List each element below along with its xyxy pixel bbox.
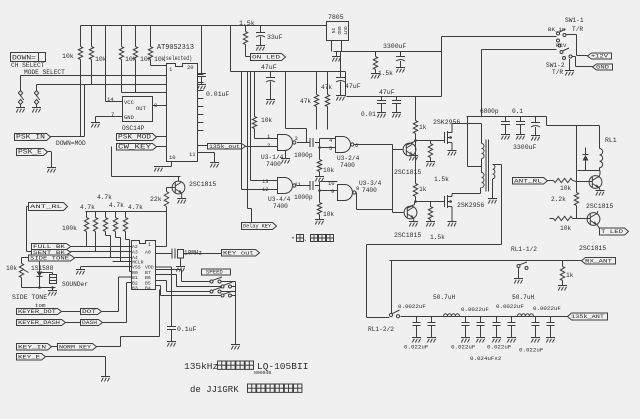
svg-text:47uF: 47uF bbox=[379, 89, 395, 96]
svg-text:VDD: VDD bbox=[145, 265, 154, 271]
svg-text:DOT: DOT bbox=[82, 309, 97, 315]
svg-text:0.01: 0.01 bbox=[361, 111, 376, 118]
svg-text:50.7uH: 50.7uH bbox=[433, 294, 456, 301]
svg-text:10MHz: 10MHz bbox=[184, 250, 202, 257]
svg-text:RL1-2/2: RL1-2/2 bbox=[368, 326, 394, 333]
svg-text:47uF: 47uF bbox=[345, 83, 361, 90]
svg-text:1.5k: 1.5k bbox=[378, 70, 393, 77]
svg-text:7: 7 bbox=[111, 111, 114, 118]
svg-text:7400: 7400 bbox=[266, 161, 281, 168]
svg-text:AT90S2313: AT90S2313 bbox=[157, 44, 194, 52]
svg-text:0.022uF: 0.022uF bbox=[487, 344, 512, 351]
svg-text:B6: B6 bbox=[145, 275, 151, 281]
svg-text:9: 9 bbox=[331, 188, 334, 195]
svg-text:T LED: T LED bbox=[601, 228, 624, 235]
svg-text:7400: 7400 bbox=[340, 162, 355, 169]
svg-text:47k: 47k bbox=[300, 98, 311, 105]
svg-text:2SK2956: 2SK2956 bbox=[457, 202, 484, 209]
svg-text:135k_ANT: 135k_ANT bbox=[571, 313, 605, 320]
svg-text:U3-3/4: U3-3/4 bbox=[359, 180, 382, 187]
svg-text:12: 12 bbox=[262, 186, 269, 193]
svg-text:PSK_E: PSK_E bbox=[18, 149, 42, 156]
svg-text:1000p: 1000p bbox=[294, 152, 313, 159]
svg-text:+12V: +12V bbox=[591, 53, 609, 60]
svg-text:4.7k: 4.7k bbox=[109, 202, 124, 209]
svg-text:3: 3 bbox=[295, 135, 298, 142]
svg-text:T/R: T/R bbox=[572, 26, 583, 33]
svg-text:0.1: 0.1 bbox=[512, 108, 523, 115]
svg-text:KEYER_DASH: KEYER_DASH bbox=[18, 320, 60, 326]
svg-text:10k: 10k bbox=[95, 56, 107, 63]
svg-text:de JJ1GRK: de JJ1GRK bbox=[190, 385, 239, 395]
svg-text:ON LED: ON LED bbox=[252, 54, 281, 61]
svg-text:II: II bbox=[297, 361, 308, 372]
svg-text:RL1: RL1 bbox=[605, 137, 617, 144]
svg-text:0.0022uF: 0.0022uF bbox=[461, 306, 489, 313]
svg-text:SW1-2: SW1-2 bbox=[546, 62, 565, 69]
svg-text:4.7k: 4.7k bbox=[97, 194, 112, 201]
svg-text:7400: 7400 bbox=[273, 203, 288, 210]
svg-text:2SK2956: 2SK2956 bbox=[433, 119, 460, 126]
svg-text:10k: 10k bbox=[125, 56, 137, 63]
svg-text:10k: 10k bbox=[140, 56, 152, 63]
svg-text:GND: GND bbox=[336, 26, 342, 35]
svg-text:135kHz: 135kHz bbox=[184, 361, 218, 372]
svg-text:0.0022uF: 0.0022uF bbox=[398, 303, 426, 310]
svg-text:(selected): (selected) bbox=[163, 55, 192, 62]
svg-text:U3-2/4: U3-2/4 bbox=[337, 155, 360, 162]
svg-text:0.022uF: 0.022uF bbox=[404, 344, 429, 351]
svg-text:47uF: 47uF bbox=[261, 64, 277, 71]
svg-text:A0: A0 bbox=[145, 250, 151, 256]
svg-text:20: 20 bbox=[187, 64, 194, 71]
svg-text:0.0022uF: 0.0022uF bbox=[533, 305, 561, 312]
svg-text:1000p: 1000p bbox=[294, 194, 313, 201]
svg-text:13: 13 bbox=[262, 178, 269, 185]
svg-text:ANT_RL: ANT_RL bbox=[30, 203, 63, 210]
svg-text:T/R: T/R bbox=[552, 69, 563, 76]
svg-text:2SC1815: 2SC1815 bbox=[189, 181, 216, 188]
svg-text:DASH: DASH bbox=[82, 320, 97, 326]
svg-text:2SC1815: 2SC1815 bbox=[394, 232, 421, 239]
svg-text:RCV: RCV bbox=[556, 42, 567, 49]
svg-text:tom: tom bbox=[35, 302, 46, 309]
svg-text:VSS: VSS bbox=[132, 265, 141, 271]
svg-text:SIDE TONE: SIDE TONE bbox=[30, 256, 69, 262]
svg-text:、: 、 bbox=[304, 236, 310, 243]
svg-text:N0004B: N0004B bbox=[254, 370, 271, 376]
svg-text:10k: 10k bbox=[6, 265, 17, 272]
svg-text:DOWN=: DOWN= bbox=[12, 55, 37, 62]
svg-text:GND: GND bbox=[124, 114, 135, 121]
svg-text:1.5k: 1.5k bbox=[430, 234, 445, 241]
svg-text:50.7uH: 50.7uH bbox=[512, 294, 535, 301]
svg-text:1.5k: 1.5k bbox=[434, 176, 449, 183]
svg-text:0.0022uF: 0.0022uF bbox=[496, 303, 524, 310]
svg-text:OSC14P: OSC14P bbox=[122, 125, 145, 132]
svg-text:CH SELECT: CH SELECT bbox=[11, 62, 45, 69]
svg-text:KEY_E: KEY_E bbox=[18, 354, 40, 360]
svg-text:SW1-1: SW1-1 bbox=[565, 17, 584, 24]
svg-text:KEY out: KEY out bbox=[223, 249, 254, 256]
svg-text:10: 10 bbox=[169, 154, 176, 161]
svg-text:A3: A3 bbox=[132, 250, 138, 256]
svg-text:11: 11 bbox=[295, 181, 302, 188]
svg-text:1k: 1k bbox=[566, 272, 574, 279]
svg-text:7400: 7400 bbox=[362, 187, 377, 194]
svg-text:10k: 10k bbox=[323, 211, 334, 218]
svg-text:10k: 10k bbox=[323, 167, 334, 174]
svg-text:VCC: VCC bbox=[124, 99, 135, 106]
svg-text:2.2k: 2.2k bbox=[551, 196, 566, 203]
svg-text:B3: B3 bbox=[132, 286, 138, 292]
svg-text:11: 11 bbox=[189, 151, 196, 158]
svg-text:7805: 7805 bbox=[328, 14, 344, 21]
svg-text:KEYER_DOT: KEYER_DOT bbox=[18, 309, 57, 315]
svg-text:SPEED: SPEED bbox=[206, 269, 223, 276]
svg-text:CW_KEY: CW_KEY bbox=[118, 143, 151, 150]
svg-text:10k: 10k bbox=[560, 185, 571, 192]
svg-text:BK_in: BK_in bbox=[548, 26, 565, 33]
svg-text:A2: A2 bbox=[132, 244, 138, 250]
svg-text:0.1uF: 0.1uF bbox=[177, 326, 197, 333]
svg-text:GND: GND bbox=[596, 64, 610, 71]
svg-text:1: 1 bbox=[148, 242, 151, 248]
svg-text:4.7k: 4.7k bbox=[80, 204, 95, 211]
svg-text:4.7k: 4.7k bbox=[128, 204, 143, 211]
svg-text:3300uF: 3300uF bbox=[383, 43, 407, 50]
svg-text:RX_ANT: RX_ANT bbox=[585, 257, 613, 264]
svg-text:1S1588: 1S1588 bbox=[31, 265, 54, 272]
svg-text:0.022uF: 0.022uF bbox=[519, 347, 544, 354]
svg-text:3300uF: 3300uF bbox=[513, 144, 537, 151]
svg-text:2SC1815: 2SC1815 bbox=[394, 169, 421, 176]
svg-text:2SC1815: 2SC1815 bbox=[579, 245, 606, 252]
svg-text:8: 8 bbox=[154, 102, 157, 109]
svg-text:10: 10 bbox=[328, 180, 335, 187]
svg-text:1k: 1k bbox=[419, 186, 427, 193]
svg-text:IN: IN bbox=[330, 28, 336, 34]
svg-text:SOUNDer: SOUNDer bbox=[62, 281, 88, 288]
svg-text:1k: 1k bbox=[419, 124, 427, 131]
svg-text:0.01uF: 0.01uF bbox=[206, 91, 230, 98]
svg-text:33uF: 33uF bbox=[267, 34, 283, 41]
svg-text:SIDE TONE: SIDE TONE bbox=[12, 294, 47, 301]
svg-text:DOWN=MOD: DOWN=MOD bbox=[56, 140, 86, 147]
svg-text:5: 5 bbox=[329, 145, 332, 152]
svg-text:2SC1815: 2SC1815 bbox=[586, 203, 613, 210]
svg-text:B4: B4 bbox=[145, 286, 151, 292]
svg-text:U3-4/4: U3-4/4 bbox=[268, 196, 291, 203]
svg-text:MODE SELECT: MODE SELECT bbox=[24, 69, 65, 76]
svg-text:10k: 10k bbox=[62, 53, 74, 60]
svg-text:RL1-1/2: RL1-1/2 bbox=[511, 246, 537, 253]
svg-text:NORM KEY: NORM KEY bbox=[59, 344, 92, 350]
svg-text:10k: 10k bbox=[560, 225, 571, 232]
svg-text:0.022uF: 0.022uF bbox=[451, 344, 476, 351]
svg-text:2: 2 bbox=[267, 142, 270, 149]
svg-text:1.5k: 1.5k bbox=[239, 20, 255, 27]
svg-text:U3-1/4: U3-1/4 bbox=[261, 154, 284, 161]
svg-text:22k: 22k bbox=[150, 196, 162, 203]
svg-text:47k: 47k bbox=[321, 84, 332, 91]
svg-text:6800p: 6800p bbox=[480, 108, 499, 115]
svg-text:0.024uFx2: 0.024uFx2 bbox=[470, 355, 502, 362]
svg-text:ANT_RL: ANT_RL bbox=[514, 177, 543, 184]
svg-text:PSK_IN: PSK_IN bbox=[16, 134, 45, 141]
svg-text:Delay KEY: Delay KEY bbox=[243, 223, 272, 230]
svg-text:10k: 10k bbox=[261, 117, 272, 124]
svg-text:OUT: OUT bbox=[136, 105, 147, 112]
svg-text:135k_out: 135k_out bbox=[209, 143, 240, 150]
svg-text:PSK_MOD: PSK_MOD bbox=[118, 134, 151, 141]
svg-text:B1: B1 bbox=[132, 275, 138, 281]
svg-text:KEY_IN: KEY_IN bbox=[18, 344, 46, 350]
svg-text:14: 14 bbox=[107, 96, 114, 103]
svg-text:*: * bbox=[291, 236, 295, 243]
svg-text:100k: 100k bbox=[62, 225, 77, 232]
svg-text:OUT: OUT bbox=[342, 26, 348, 35]
svg-text:6: 6 bbox=[355, 142, 358, 149]
